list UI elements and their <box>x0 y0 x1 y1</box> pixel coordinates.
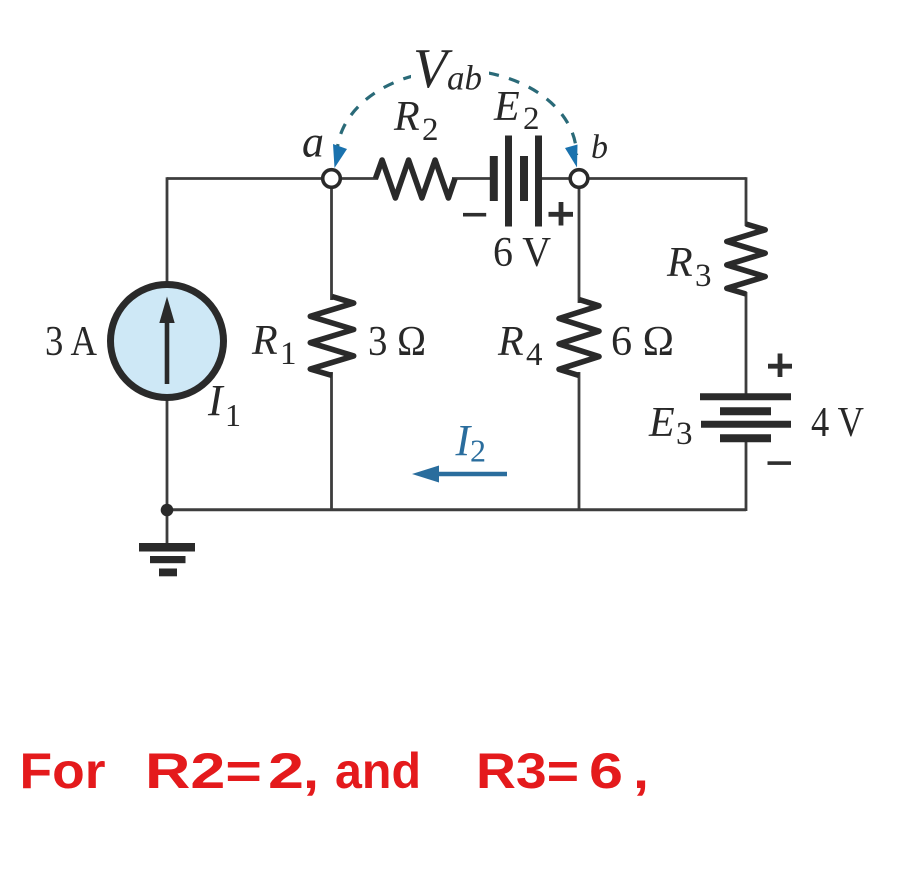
battery E3 <box>700 397 791 439</box>
current source I1 <box>111 285 224 398</box>
white backing for Vab label <box>411 45 489 93</box>
svg-text:R2=: R2= <box>145 743 262 799</box>
label R2 <box>393 94 439 148</box>
wire R1 branch upper <box>330 186 333 300</box>
label minus E3 <box>768 461 792 465</box>
node b <box>570 170 588 188</box>
svg-text:6 V: 6 V <box>493 230 551 276</box>
wire left vertical upper <box>166 177 169 285</box>
wire R1 branch lower <box>330 372 333 511</box>
svg-text:3: 3 <box>695 258 712 294</box>
svg-text:1: 1 <box>225 397 241 433</box>
svg-text:,: , <box>633 743 649 799</box>
label E3 <box>648 400 693 452</box>
resistor R2 <box>376 160 456 198</box>
wire node b to top-right corner <box>588 177 746 180</box>
ground <box>139 543 195 576</box>
svg-text:1: 1 <box>280 336 297 372</box>
wire left vertical lower <box>166 397 169 545</box>
node a <box>323 170 341 188</box>
svg-text:For: For <box>20 743 106 799</box>
wire R4 branch lower <box>578 372 581 511</box>
label minus E2 <box>463 213 486 217</box>
label R4 <box>497 319 543 373</box>
Vab arrowhead at b <box>565 145 578 168</box>
svg-text:6 Ω: 6 Ω <box>611 319 674 365</box>
wire node a to R2 <box>340 177 379 180</box>
label Vab <box>413 38 482 100</box>
label plus E2 <box>549 202 574 226</box>
svg-text:R: R <box>497 319 524 365</box>
svg-text:3: 3 <box>676 416 693 452</box>
Vab dashed arc <box>337 70 577 155</box>
label I2 <box>455 416 487 469</box>
svg-text:I: I <box>207 376 225 425</box>
svg-text:R3=: R3= <box>476 743 579 799</box>
battery E2 <box>494 136 539 227</box>
wire top-left horizontal <box>167 177 323 180</box>
svg-text:2: 2 <box>470 433 486 469</box>
svg-text:a: a <box>302 118 324 167</box>
svg-text:4: 4 <box>526 337 543 373</box>
svg-text:3 Ω: 3 Ω <box>368 319 426 365</box>
label I1 <box>207 376 241 433</box>
wire R4 branch upper <box>578 186 581 303</box>
wire R2 to E2 <box>452 177 492 180</box>
svg-text:E: E <box>493 84 520 130</box>
svg-text:4 V: 4 V <box>811 400 864 446</box>
svg-text:,: , <box>303 743 319 799</box>
resistor R4 <box>559 300 599 376</box>
svg-text:2: 2 <box>523 101 540 137</box>
resistor R3 <box>727 224 765 294</box>
wire right vertical upper <box>745 177 748 226</box>
wire right vertical lower <box>745 441 748 511</box>
label E2 <box>493 84 540 137</box>
label R3 <box>666 240 712 294</box>
svg-text:E: E <box>648 400 675 446</box>
resistor R1 <box>310 297 353 376</box>
caption text red <box>20 743 650 799</box>
svg-text:ab: ab <box>447 59 482 98</box>
current arrow I2 <box>412 466 507 483</box>
svg-text:2: 2 <box>422 112 439 148</box>
svg-text:6: 6 <box>589 743 623 799</box>
svg-text:R: R <box>393 94 420 140</box>
svg-text:R: R <box>251 318 278 364</box>
svg-text:2: 2 <box>268 743 304 799</box>
svg-text:R: R <box>666 240 693 286</box>
wire bottom horizontal <box>167 508 746 511</box>
label R1 <box>251 318 297 372</box>
wire right vertical middle <box>745 292 748 394</box>
Vab arrowhead at a <box>333 144 347 168</box>
svg-text:and: and <box>335 743 421 799</box>
svg-text:3 A: 3 A <box>45 319 98 365</box>
svg-text:b: b <box>591 129 608 166</box>
junction dot <box>161 504 174 517</box>
wire E2 to node b <box>540 177 571 180</box>
label plus E3 <box>768 354 792 378</box>
